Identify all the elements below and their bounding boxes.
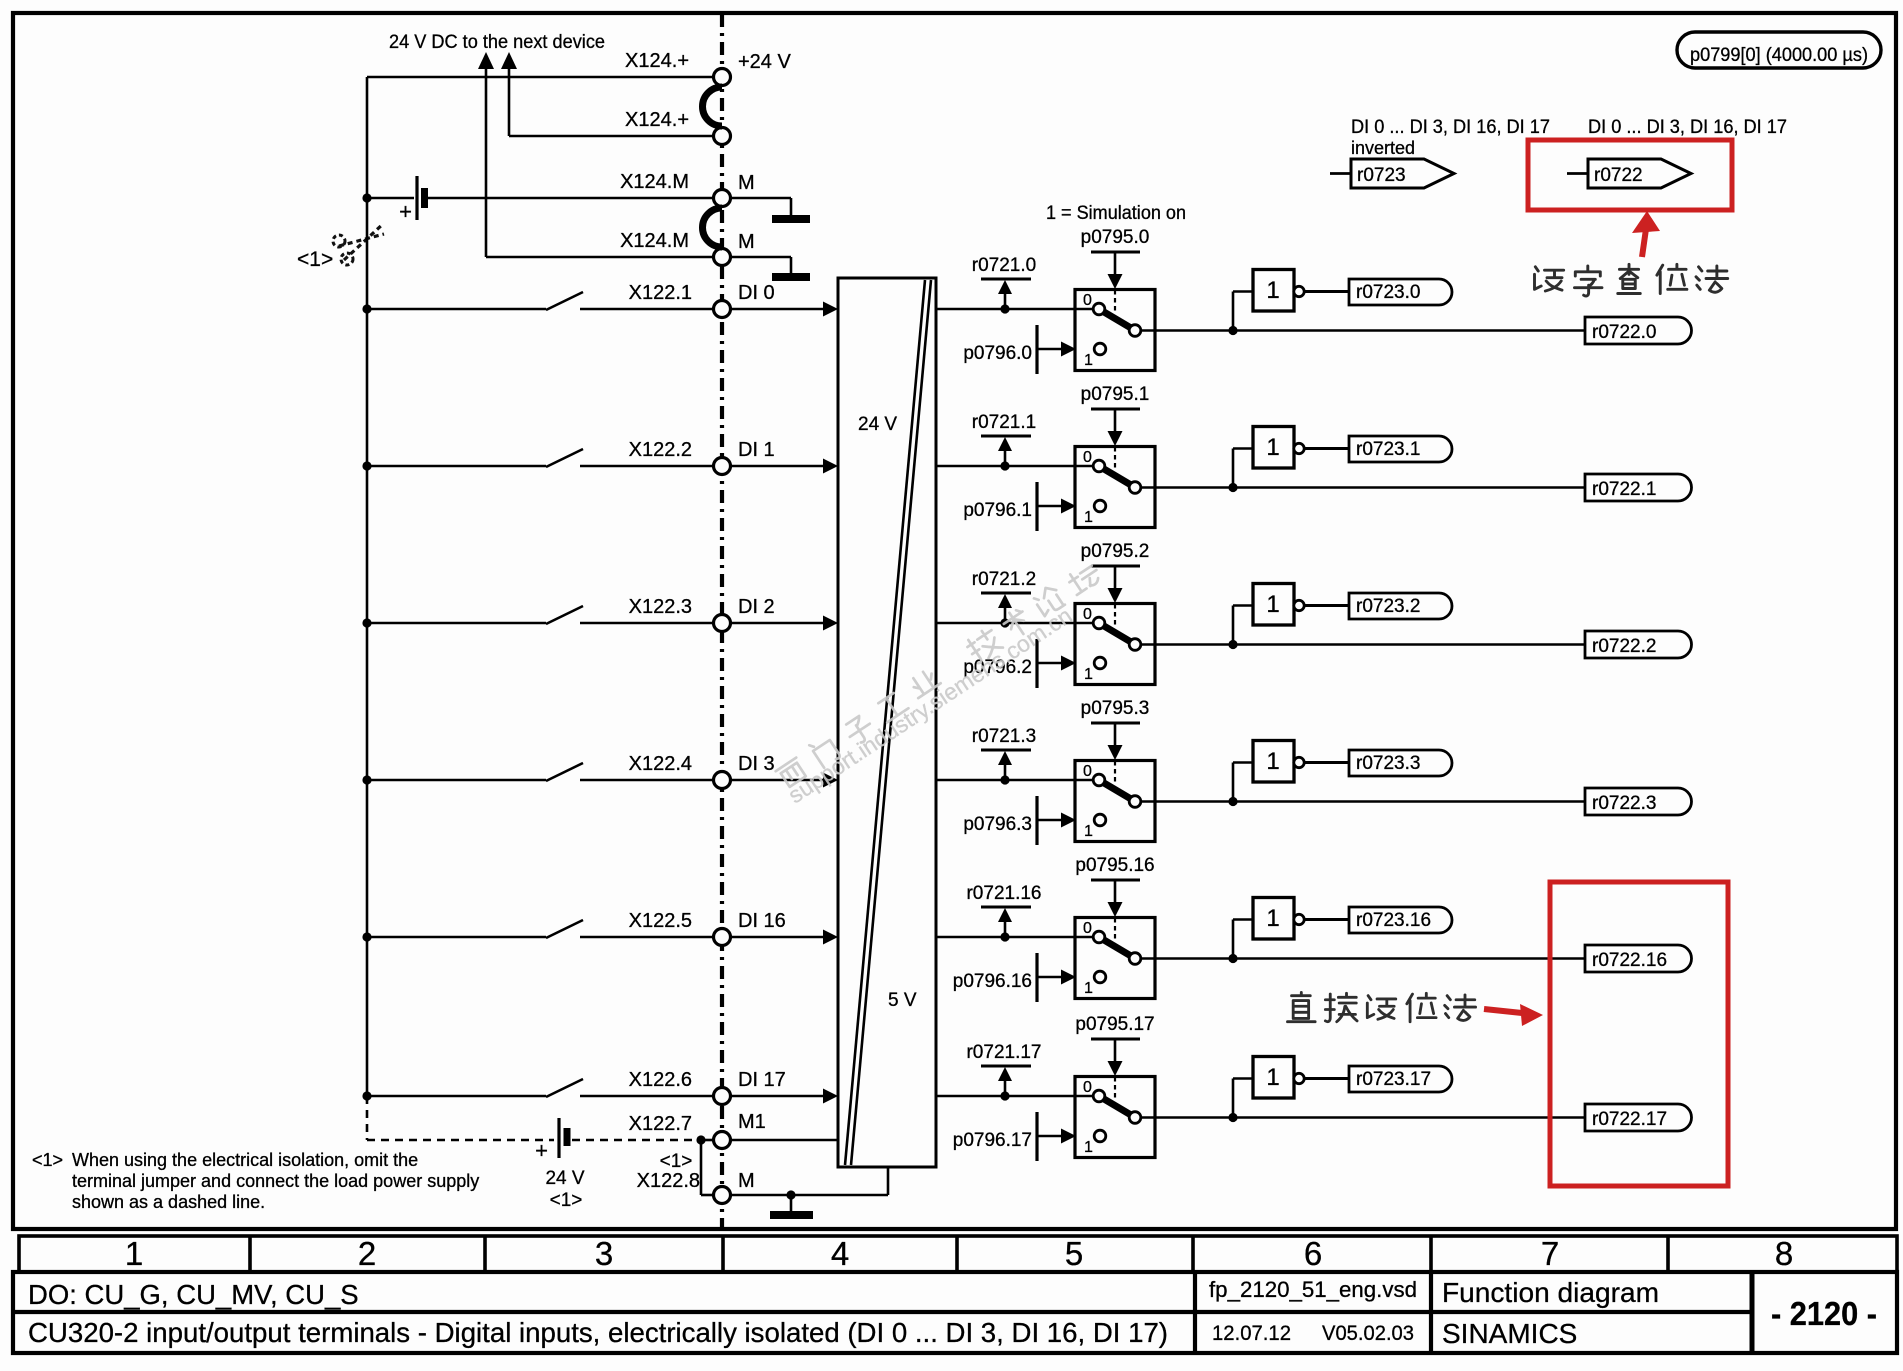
svg-text:r0723.0: r0723.0 — [1356, 282, 1420, 303]
svg-text:24 V: 24 V — [545, 1168, 584, 1189]
svg-text:+: + — [399, 199, 412, 224]
svg-text:1: 1 — [1084, 980, 1093, 997]
svg-text:<1>: <1> — [660, 1151, 693, 1172]
svg-text:1: 1 — [1266, 277, 1279, 304]
svg-text:p0795.2: p0795.2 — [1081, 541, 1150, 562]
svg-text:SINAMICS: SINAMICS — [1442, 1318, 1577, 1349]
svg-text:X124.M: X124.M — [620, 230, 689, 252]
svg-text:r0723.16: r0723.16 — [1356, 910, 1431, 931]
svg-text:r0722.16: r0722.16 — [1592, 950, 1667, 971]
svg-text:8: 8 — [1775, 1235, 1793, 1272]
svg-text:0: 0 — [1083, 449, 1092, 466]
svg-text:5: 5 — [1065, 1235, 1083, 1272]
svg-text:p0799[0] (4000.00 µs): p0799[0] (4000.00 µs) — [1690, 45, 1868, 66]
svg-text:r0722.17: r0722.17 — [1592, 1109, 1667, 1130]
svg-text:3: 3 — [595, 1235, 613, 1272]
svg-text:r0723.1: r0723.1 — [1356, 439, 1420, 460]
svg-text:shown as a dashed line.: shown as a dashed line. — [72, 1192, 265, 1212]
svg-text:r0723.2: r0723.2 — [1356, 596, 1420, 617]
svg-text:M: M — [738, 231, 755, 253]
svg-text:r0722.1: r0722.1 — [1592, 479, 1656, 500]
svg-text:24 V: 24 V — [858, 414, 897, 435]
svg-text:1: 1 — [1084, 823, 1093, 840]
svg-text:inverted: inverted — [1351, 138, 1415, 158]
svg-text:p0796.17: p0796.17 — [953, 1130, 1032, 1151]
svg-text:r0721.16: r0721.16 — [966, 883, 1041, 904]
svg-text:DI 1: DI 1 — [738, 439, 775, 461]
svg-text:DO: CU_G, CU_MV, CU_S: DO: CU_G, CU_MV, CU_S — [28, 1279, 359, 1310]
svg-text:1: 1 — [1266, 748, 1279, 775]
svg-text:p0795.1: p0795.1 — [1081, 384, 1150, 405]
svg-text:M: M — [738, 172, 755, 194]
svg-text:1: 1 — [1084, 509, 1093, 526]
svg-text:X122.8: X122.8 — [637, 1170, 700, 1192]
svg-text:Function diagram: Function diagram — [1442, 1277, 1659, 1308]
svg-text:1 = Simulation on: 1 = Simulation on — [1046, 203, 1186, 224]
svg-text:DI 0 ... DI 3, DI 16, DI 17: DI 0 ... DI 3, DI 16, DI 17 — [1351, 117, 1550, 138]
svg-text:DI 17: DI 17 — [738, 1069, 786, 1091]
svg-text:X122.1: X122.1 — [629, 282, 692, 304]
svg-text:X124.+: X124.+ — [625, 50, 689, 72]
svg-text:1: 1 — [1266, 434, 1279, 461]
svg-text:<1>: <1> — [297, 248, 333, 271]
svg-text:p0795.0: p0795.0 — [1081, 227, 1150, 248]
svg-text:r0723: r0723 — [1357, 165, 1406, 186]
svg-text:0: 0 — [1083, 920, 1092, 937]
svg-text:DI 0 ... DI 3, DI 16, DI 17: DI 0 ... DI 3, DI 16, DI 17 — [1588, 117, 1787, 138]
svg-text:X122.7: X122.7 — [629, 1113, 692, 1135]
svg-text:0: 0 — [1083, 1079, 1092, 1096]
svg-text:r0722.0: r0722.0 — [1592, 322, 1656, 343]
svg-text:1: 1 — [1266, 905, 1279, 932]
svg-text:X124.M: X124.M — [620, 171, 689, 193]
svg-text:r0722.2: r0722.2 — [1592, 636, 1656, 657]
svg-text:r0722: r0722 — [1594, 165, 1643, 186]
svg-text:r0721.1: r0721.1 — [972, 412, 1036, 433]
svg-text:r0723.17: r0723.17 — [1356, 1069, 1431, 1090]
svg-text:p0796.3: p0796.3 — [963, 814, 1032, 835]
svg-text:p0796.16: p0796.16 — [953, 971, 1032, 992]
svg-text:DI 16: DI 16 — [738, 910, 786, 932]
svg-text:p0796.1: p0796.1 — [963, 500, 1032, 521]
svg-text:0: 0 — [1083, 606, 1092, 623]
svg-text:+24 V: +24 V — [738, 51, 791, 73]
svg-text:When using the electrical isol: When using the electrical isolation, omi… — [72, 1150, 418, 1170]
svg-text:X124.+: X124.+ — [625, 109, 689, 131]
svg-text:0: 0 — [1083, 292, 1092, 309]
svg-text:1: 1 — [1084, 352, 1093, 369]
svg-text:2: 2 — [358, 1235, 376, 1272]
svg-text:r0721.0: r0721.0 — [972, 255, 1036, 276]
svg-text:V05.02.03: V05.02.03 — [1322, 1322, 1414, 1345]
svg-text:r0721.2: r0721.2 — [972, 569, 1036, 590]
svg-text:terminal jumper and connect th: terminal jumper and connect the load pow… — [72, 1171, 479, 1191]
svg-text:r0723.3: r0723.3 — [1356, 753, 1420, 774]
svg-text:X122.6: X122.6 — [629, 1069, 692, 1091]
svg-text:24 V DC to the next device: 24 V DC to the next device — [389, 32, 605, 53]
svg-text:1: 1 — [1084, 1139, 1093, 1156]
svg-text:1: 1 — [1266, 1064, 1279, 1091]
svg-text:5 V: 5 V — [888, 990, 917, 1011]
svg-text:X122.4: X122.4 — [629, 753, 692, 775]
svg-text:CU320-2 input/output terminals: CU320-2 input/output terminals - Digital… — [28, 1317, 1168, 1348]
svg-text:p0796.0: p0796.0 — [963, 343, 1032, 364]
svg-text:<1>: <1> — [32, 1150, 63, 1170]
svg-text:- 2120 -: - 2120 - — [1771, 1295, 1877, 1332]
svg-text:+: + — [535, 1138, 548, 1163]
svg-text:1: 1 — [1266, 591, 1279, 618]
svg-text:DI 2: DI 2 — [738, 596, 775, 618]
svg-text:p0795.17: p0795.17 — [1075, 1014, 1154, 1035]
svg-text:DI 0: DI 0 — [738, 282, 775, 304]
svg-text:DI 3: DI 3 — [738, 753, 775, 775]
svg-text:0: 0 — [1083, 763, 1092, 780]
svg-text:fp_2120_51_eng.vsd: fp_2120_51_eng.vsd — [1209, 1277, 1417, 1302]
svg-text:X122.5: X122.5 — [629, 910, 692, 932]
svg-text:1: 1 — [1084, 666, 1093, 683]
svg-text:1: 1 — [125, 1235, 143, 1272]
svg-text:r0721.3: r0721.3 — [972, 726, 1036, 747]
svg-text:r0722.3: r0722.3 — [1592, 793, 1656, 814]
svg-text:<1>: <1> — [550, 1190, 583, 1211]
svg-text:7: 7 — [1541, 1235, 1559, 1272]
svg-text:X122.2: X122.2 — [629, 439, 692, 461]
svg-text:6: 6 — [1304, 1235, 1322, 1272]
svg-text:p0795.3: p0795.3 — [1081, 698, 1150, 719]
svg-text:M1: M1 — [738, 1111, 766, 1133]
svg-text:M: M — [738, 1170, 755, 1192]
svg-text:p0795.16: p0795.16 — [1075, 855, 1154, 876]
svg-text:4: 4 — [831, 1235, 849, 1272]
svg-text:12.07.12: 12.07.12 — [1212, 1322, 1291, 1345]
svg-text:r0721.17: r0721.17 — [966, 1042, 1041, 1063]
svg-text:X122.3: X122.3 — [629, 596, 692, 618]
